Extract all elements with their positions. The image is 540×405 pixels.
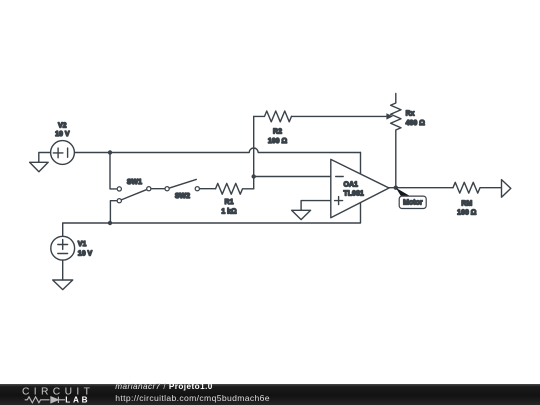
svg-text:V2: V2 <box>58 122 67 129</box>
wire from SW1 bottom throw down to bottom rail <box>110 201 116 223</box>
wire V1 to ground <box>62 260 64 280</box>
label V2 value <box>55 122 70 138</box>
wire R2 to Rx wiper with arrowhead <box>292 113 394 119</box>
svg-text:10 V: 10 V <box>78 250 93 257</box>
label OA1 TL081 <box>344 182 364 198</box>
svg-text:OA1: OA1 <box>344 182 359 189</box>
svg-text:100 Ω: 100 Ω <box>457 209 477 216</box>
wire junction dot output node <box>394 186 398 190</box>
svg-text:SW2: SW2 <box>175 193 190 200</box>
wire from top rail down to SW1 top throw <box>110 153 117 189</box>
ground at V1 <box>53 280 73 290</box>
label Motor callout <box>396 188 426 209</box>
op-amp OA1 <box>331 159 389 217</box>
svg-text:TL081: TL081 <box>344 191 364 198</box>
resistor RM <box>453 182 502 193</box>
svg-text:V1: V1 <box>78 241 87 248</box>
svg-text:LAB: LAB <box>65 395 90 404</box>
label V1 value <box>78 241 93 257</box>
wire to op-amp inverting input <box>254 176 331 178</box>
svg-text:R1: R1 <box>225 199 234 206</box>
svg-text:SW1: SW1 <box>127 179 142 186</box>
ground at op-amp <box>292 210 311 219</box>
label SW1 <box>127 179 142 186</box>
output flag terminal <box>502 180 511 198</box>
wire op-amp non-inverting input to ground <box>301 201 331 211</box>
footer project text <box>115 382 270 403</box>
switch SW2 <box>165 179 199 190</box>
wire between SW1 and SW2 <box>152 188 165 190</box>
wire V2 to ground <box>39 153 51 163</box>
resistor R1 <box>216 183 254 194</box>
footer CircuitLab logo <box>22 387 94 405</box>
svg-text:http://circuitlab.com/cmq5budm: http://circuitlab.com/cmq5budmach6e <box>115 393 270 403</box>
label RM value <box>457 200 477 216</box>
wire vertical R-chain R1/R2 to inverting node <box>253 116 255 188</box>
label R2 value <box>268 128 288 145</box>
resistor R2 <box>254 111 292 122</box>
svg-text:R2: R2 <box>273 128 282 135</box>
wire junction dot inverting node <box>252 174 256 178</box>
svg-text:RM: RM <box>461 200 472 207</box>
svg-text:100 Ω: 100 Ω <box>268 138 288 145</box>
potentiometer Rx <box>391 94 401 188</box>
wire op-amp output to RM <box>389 187 453 189</box>
ground at V2 <box>30 162 49 171</box>
svg-text:1 kΩ: 1 kΩ <box>221 209 237 216</box>
voltage source V2 <box>51 141 75 165</box>
svg-text:Motor: Motor <box>403 200 423 207</box>
wire right side down and bottom rail to V1 <box>63 153 361 237</box>
wire main top rail from V2 with hop over R-chain <box>75 148 361 153</box>
voltage source V1 <box>51 236 75 260</box>
label SW2 <box>175 193 190 200</box>
footer bar <box>0 384 540 405</box>
svg-text:10 V: 10 V <box>55 131 70 138</box>
svg-text:Rx: Rx <box>406 110 415 117</box>
label R1 value <box>221 199 237 216</box>
svg-text:400 Ω: 400 Ω <box>406 120 426 127</box>
wire junction dot on bottom rail <box>108 221 112 225</box>
switch SW1 <box>117 187 151 203</box>
wire SW2 to R1 <box>200 188 215 190</box>
svg-text:marianacr7 / Projeto1.0: marianacr7 / Projeto1.0 <box>115 382 213 391</box>
label Rx value <box>406 110 426 127</box>
wire junction dot on top rail <box>108 150 112 154</box>
